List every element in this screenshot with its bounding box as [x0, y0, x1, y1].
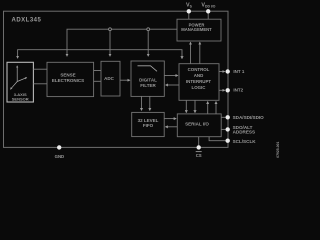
svg-text:ADXL345: ADXL345	[12, 18, 42, 24]
svg-text:SDA/SDI/SDIO: SDA/SDI/SDIO	[233, 115, 265, 120]
wire arrow serial io up to control 1	[207, 102, 209, 114]
svg-text:ADC: ADC	[104, 76, 114, 81]
wire drop to digital filter	[147, 29, 149, 50]
wire arrow control down to serial io 1	[185, 100, 187, 112]
wire arrow into sense electronics top	[66, 50, 68, 57]
wire arrow ADC to digital filter	[120, 79, 130, 81]
block ADC	[101, 61, 120, 96]
wire supply rail lower	[18, 50, 182, 59]
wire arrow control to INT1	[219, 71, 225, 73]
wire arrow control logic to power management right	[199, 42, 201, 64]
wire supply rail upper (power mgmt to left)	[67, 29, 177, 50]
pin SDA terminal	[226, 115, 230, 119]
svg-text:CS: CS	[196, 153, 202, 158]
svg-text:DIGITAL: DIGITAL	[139, 77, 157, 82]
svg-text:AND: AND	[194, 73, 204, 78]
wire sensor to sense upper	[33, 68, 47, 70]
pin SDO terminal	[226, 127, 230, 131]
pin INT2 terminal	[226, 88, 230, 92]
wire arrow into ADC top	[109, 50, 111, 57]
wire serial io to SCL pin	[209, 137, 225, 141]
chip boundary ADXL345	[4, 11, 229, 147]
block CONTROL AND INTERRUPT LOGIC	[179, 64, 219, 101]
pin INT1 terminal	[226, 69, 230, 73]
block SENSE ELECTRONICS	[47, 62, 94, 96]
wire arrow FIFO to serial io	[164, 118, 176, 120]
wire arrow serial io to FIFO	[165, 126, 177, 128]
3-axis icon	[10, 66, 26, 90]
pin GND terminal	[57, 145, 61, 149]
pin VDD I/O label	[201, 2, 215, 8]
wire arrow control to INT2	[219, 89, 225, 91]
block POWER MANAGEMENT	[177, 19, 221, 41]
junction on rail at ADC drop	[109, 28, 112, 31]
wire arrow digital filter down to FIFO right	[149, 96, 151, 110]
pin VDD I/O terminal	[206, 9, 210, 13]
svg-text:GND: GND	[55, 154, 65, 159]
pin CS terminal	[197, 145, 201, 149]
wire drop to ADC	[109, 29, 111, 50]
svg-text:INT 1: INT 1	[233, 69, 244, 74]
svg-text:SENSOR: SENSOR	[12, 96, 29, 101]
svg-text:LOGIC: LOGIC	[192, 85, 207, 90]
wire sense to ADC lower	[94, 80, 101, 82]
svg-text:ELECTRONICS: ELECTRONICS	[52, 78, 84, 83]
block 3-AXIS SENSOR	[7, 62, 33, 102]
wire arrow digital filter to control logic	[164, 75, 178, 77]
pin VS label	[186, 2, 193, 8]
wire arrow control down to serial io 2	[194, 100, 196, 112]
svg-text:SCL/SCLK: SCL/SCLK	[233, 139, 257, 144]
pin SCL terminal	[226, 139, 230, 143]
block DIGITAL FILTER	[131, 61, 164, 96]
svg-text:FILTER: FILTER	[140, 83, 156, 88]
wire serial io to SDA pin	[221, 116, 225, 118]
pin VS terminal	[187, 9, 191, 13]
wire arrow control logic to digital filter	[166, 84, 180, 86]
svg-text:ADDRESS: ADDRESS	[233, 130, 255, 135]
svg-text:SERIAL I/O: SERIAL I/O	[185, 121, 209, 126]
wire VDD I/O to power management	[207, 12, 209, 19]
svg-text:INTERRUPT: INTERRUPT	[186, 79, 211, 84]
svg-text:CONTROL: CONTROL	[188, 67, 210, 72]
wire serial io to SDO pin	[221, 128, 225, 130]
wire arrow serial io up to control 2	[215, 102, 217, 114]
wire sense to ADC upper	[94, 70, 101, 72]
junction on rail at filter drop	[147, 28, 150, 31]
svg-text:07925-001: 07925-001	[276, 141, 280, 157]
wire arrow into digital filter top	[147, 50, 149, 57]
svg-text:FIFO: FIFO	[143, 123, 154, 128]
block 32 LEVEL FIFO	[132, 112, 165, 136]
filter response icon	[138, 66, 158, 72]
wire arrow digital filter down to FIFO left	[141, 96, 143, 110]
wire arrow control logic to power management left	[190, 42, 192, 64]
pin CS label with overline	[196, 152, 202, 158]
svg-text:INT2: INT2	[233, 88, 243, 93]
block SERIAL I/O	[177, 114, 221, 137]
wire serial io down to CS pin	[198, 137, 200, 146]
svg-text:MANAGEMENT: MANAGEMENT	[181, 27, 212, 32]
wire VS to power management	[188, 12, 190, 19]
wire sensor to sense lower	[33, 83, 47, 85]
